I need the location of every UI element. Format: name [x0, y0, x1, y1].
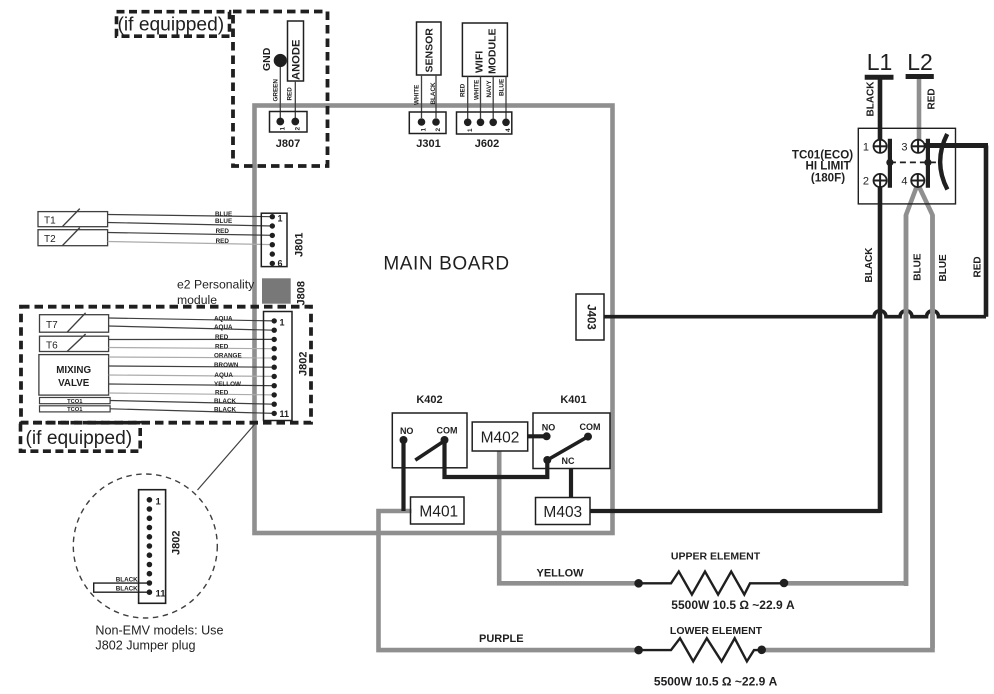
svg-text:(if equipped): (if equipped) — [118, 15, 225, 36]
M402 terminal — [472, 422, 528, 451]
wire RED T6 pin3 — [109, 334, 275, 341]
svg-text:PURPLE: PURPLE — [479, 633, 524, 645]
svg-text:WHITE: WHITE — [414, 85, 421, 105]
screw terminal 1 — [863, 140, 887, 154]
wire RED vertical right — [973, 146, 987, 317]
wire RED anode — [287, 81, 296, 118]
svg-text:YELLOW: YELLOW — [214, 381, 241, 388]
junction dot bar 3-4 — [924, 159, 931, 166]
svg-text:T2: T2 — [44, 234, 56, 245]
svg-text:TCO1: TCO1 — [67, 407, 83, 413]
svg-text:RED: RED — [460, 83, 467, 97]
svg-text:5500W 10.5 Ω ~22.9 A: 5500W 10.5 Ω ~22.9 A — [671, 598, 795, 612]
svg-text:J602: J602 — [475, 138, 499, 150]
svg-text:BLACK: BLACK — [864, 247, 875, 283]
svg-text:VALVE: VALVE — [58, 378, 90, 389]
svg-text:2: 2 — [295, 127, 302, 131]
wire WHITE wifi — [474, 76, 481, 118]
wire YELLOW valve pin8 — [109, 381, 275, 388]
screw terminal 4 — [901, 174, 924, 188]
svg-text:M402: M402 — [481, 430, 520, 447]
terminal L1 — [865, 49, 894, 77]
wire BLUE T1 pin1 — [108, 211, 273, 218]
main board label — [383, 254, 509, 275]
svg-text:BLACK: BLACK — [866, 81, 877, 117]
terminal L2 — [906, 49, 934, 77]
svg-text:M403: M403 — [543, 504, 582, 521]
svg-text:NC: NC — [562, 456, 575, 466]
svg-text:5500W 10.5 Ω ~22.9 A: 5500W 10.5 Ω ~22.9 A — [654, 674, 778, 688]
relay K402 — [392, 394, 467, 468]
svg-text:BLACK: BLACK — [214, 407, 236, 414]
label YELLOW — [537, 568, 585, 580]
svg-text:BLUE: BLUE — [499, 79, 506, 96]
svg-text:AQUA: AQUA — [214, 315, 233, 322]
relay K401 — [533, 394, 610, 469]
svg-text:WHITE: WHITE — [474, 80, 481, 100]
svg-text:J807: J807 — [276, 138, 300, 150]
wire WHITE sensor — [414, 75, 422, 118]
svg-text:MIXING: MIXING — [56, 365, 91, 376]
wire terminal3 to red vertical — [920, 143, 988, 148]
wire J403 to L2 leg with hops — [604, 311, 986, 317]
svg-text:6: 6 — [278, 259, 283, 269]
svg-text:LOWER ELEMENT: LOWER ELEMENT — [670, 625, 763, 637]
svg-text:BLUE: BLUE — [215, 218, 232, 225]
svg-text:ANODE: ANODE — [291, 39, 303, 80]
svg-text:2: 2 — [863, 176, 869, 188]
svg-text:J802 Jumper plug: J802 Jumper plug — [95, 639, 195, 653]
wire BLUE wifi — [499, 76, 507, 118]
svg-text:(180F): (180F) — [811, 171, 845, 184]
svg-text:J403: J403 — [585, 304, 597, 330]
connector J802 detail — [139, 490, 183, 604]
svg-text:MAIN BOARD: MAIN BOARD — [383, 254, 509, 275]
wire K402 COM to K401 NC — [445, 440, 548, 477]
connector J403 — [576, 294, 604, 340]
svg-text:NO: NO — [542, 423, 556, 433]
svg-text:GND: GND — [261, 47, 273, 71]
wire BLACK L1 to terminal 1 — [866, 80, 881, 147]
M403 terminal — [536, 498, 591, 525]
TCO1 lower — [40, 406, 111, 413]
svg-text:M401: M401 — [419, 504, 458, 521]
wire RED L2 to terminal 3 — [919, 79, 938, 146]
wire K402 NO to M401 — [401, 440, 405, 511]
bimetal disc arc — [940, 134, 947, 190]
label PURPLE — [479, 633, 524, 645]
dashed mechanical link — [890, 161, 941, 163]
wire BLUE terminal 4 branch left — [906, 185, 924, 586]
connector J802 — [264, 312, 310, 421]
callout line to detail circle — [198, 425, 255, 491]
wire BLACK TCO1 pin10 — [110, 398, 274, 405]
thermostat T6 — [40, 334, 109, 352]
connector J807 — [270, 112, 308, 151]
svg-text:ORANGE: ORANGE — [214, 352, 242, 359]
svg-text:BLUE: BLUE — [913, 253, 924, 281]
svg-text:RED: RED — [927, 88, 938, 109]
contact bar terminals 3-4 — [926, 139, 930, 188]
svg-text:K401: K401 — [560, 394, 586, 406]
svg-text:BLACK: BLACK — [430, 82, 437, 104]
thermostat T7 — [40, 313, 109, 332]
wire RED T6 pin4 — [109, 344, 275, 351]
svg-text:1: 1 — [156, 497, 162, 508]
wire AQUA T7 pin2 — [109, 324, 275, 331]
svg-text:1: 1 — [280, 127, 287, 131]
dashed label box (if equipped) lower — [21, 423, 141, 452]
wire BLACK sensor — [430, 75, 437, 118]
svg-text:L1: L1 — [867, 49, 893, 75]
svg-text:T1: T1 — [44, 216, 56, 227]
svg-text:(if equipped): (if equipped) — [26, 428, 133, 449]
wire BLACK terminal 2 down to M403 line — [864, 187, 880, 513]
main board outline — [255, 106, 613, 534]
wire RED wifi — [460, 76, 468, 118]
svg-text:1: 1 — [421, 128, 428, 132]
wire K401 to M403 — [569, 469, 573, 499]
svg-text:NO: NO — [400, 426, 414, 436]
svg-text:RED: RED — [215, 344, 229, 351]
svg-text:J808: J808 — [296, 281, 308, 305]
lower element heater — [634, 215, 932, 688]
sensor — [417, 22, 442, 75]
svg-text:e2 Personality: e2 Personality — [177, 278, 255, 292]
TCO1 upper — [40, 398, 111, 406]
wire AQUA T7 pin1 — [109, 315, 275, 322]
connector J808 module socket — [262, 278, 308, 305]
svg-text:2: 2 — [435, 128, 442, 132]
svg-text:BLACK: BLACK — [116, 586, 138, 593]
svg-text:RED: RED — [216, 228, 230, 235]
svg-text:11: 11 — [280, 409, 290, 419]
wire M403 to black line — [590, 509, 880, 513]
e2 personality module label — [177, 278, 255, 308]
thermostat T1 — [38, 209, 108, 227]
M401 terminal — [411, 497, 465, 524]
wire BLUE T1 pin2 — [108, 218, 273, 226]
svg-text:J802: J802 — [298, 352, 310, 376]
wifi module — [462, 23, 507, 76]
svg-text:RED: RED — [215, 390, 229, 397]
dashed box anode section — [233, 12, 328, 167]
anode — [288, 21, 304, 81]
svg-text:4: 4 — [505, 128, 512, 132]
dashed box mixing valve section — [21, 307, 311, 423]
thermostat T2 — [38, 228, 108, 246]
svg-text:J801: J801 — [294, 233, 306, 257]
high limit TC01 label — [792, 148, 853, 184]
upper element heater — [634, 215, 906, 612]
svg-text:WIFI: WIFI — [474, 51, 486, 73]
wire ORANGE valve pin5 — [109, 352, 275, 359]
svg-text:BLUE: BLUE — [938, 254, 949, 282]
svg-text:L2: L2 — [907, 49, 933, 75]
wire RED T2 pin4 — [108, 238, 273, 245]
GND terminal — [261, 47, 287, 71]
svg-text:GREEN: GREEN — [273, 79, 280, 102]
non-EMV note — [95, 624, 223, 653]
svg-text:BLACK: BLACK — [214, 398, 236, 405]
high limit switch TC01 box — [858, 128, 955, 204]
wire M402 to K401 NO — [528, 434, 547, 438]
svg-text:K402: K402 — [416, 394, 442, 406]
svg-text:3: 3 — [901, 142, 907, 154]
svg-text:BLACK: BLACK — [116, 577, 138, 584]
svg-text:J802: J802 — [171, 531, 183, 555]
svg-text:RED: RED — [287, 87, 294, 101]
detail circle dashed — [73, 474, 217, 618]
mixing valve — [39, 355, 109, 396]
svg-text:RED: RED — [973, 256, 984, 277]
svg-text:BLUE: BLUE — [215, 211, 232, 218]
svg-text:J301: J301 — [416, 138, 440, 150]
svg-text:AQUA: AQUA — [214, 372, 233, 379]
svg-text:SENSOR: SENSOR — [424, 28, 436, 73]
svg-text:RED: RED — [215, 334, 229, 341]
svg-text:RED: RED — [216, 238, 230, 245]
svg-text:T7: T7 — [46, 320, 58, 331]
wire BLACK TCO1 pin11 — [110, 407, 274, 414]
svg-text:1: 1 — [278, 214, 283, 224]
wire GREEN anode — [273, 67, 281, 118]
screw terminal 2 — [863, 174, 887, 188]
junction dot bar 1-2 — [886, 159, 893, 166]
svg-text:1: 1 — [863, 142, 869, 154]
wire NAVY wifi — [486, 76, 493, 118]
wire gray M402 to yellow element — [499, 451, 638, 583]
svg-text:11: 11 — [156, 589, 167, 600]
svg-text:1: 1 — [280, 318, 285, 328]
svg-text:TCO1: TCO1 — [67, 399, 83, 405]
connector J301 — [409, 112, 446, 150]
svg-text:NAVY: NAVY — [486, 80, 493, 98]
jumper wire pins 10-11 — [94, 577, 150, 593]
svg-text:COM: COM — [437, 426, 458, 436]
svg-text:COM: COM — [580, 422, 601, 432]
svg-text:MODULE: MODULE — [487, 29, 499, 75]
svg-text:UPPER ELEMENT: UPPER ELEMENT — [671, 551, 761, 563]
wire RED valve pin9 — [109, 390, 275, 397]
wire BROWN valve pin6 — [109, 362, 275, 369]
wire gray M401 to purple element — [379, 511, 639, 650]
svg-text:AQUA: AQUA — [214, 324, 233, 331]
svg-text:BROWN: BROWN — [214, 362, 239, 369]
svg-text:1: 1 — [467, 128, 474, 132]
screw terminal 3 — [901, 140, 924, 154]
svg-text:Non-EMV models: Use: Non-EMV models: Use — [95, 624, 223, 638]
wire AQUA valve pin7 — [109, 372, 275, 379]
wire RED T2 pin3 — [108, 228, 273, 235]
svg-text:4: 4 — [901, 176, 907, 188]
contact bar terminals 1-2 — [888, 139, 892, 188]
dashed label box (if equipped) top — [117, 12, 230, 37]
connector J602 — [457, 112, 513, 150]
svg-text:T6: T6 — [46, 341, 58, 352]
connector J801 — [261, 213, 305, 268]
wire BLUE terminal 4 branch right — [918, 185, 949, 648]
svg-text:YELLOW: YELLOW — [537, 568, 585, 580]
